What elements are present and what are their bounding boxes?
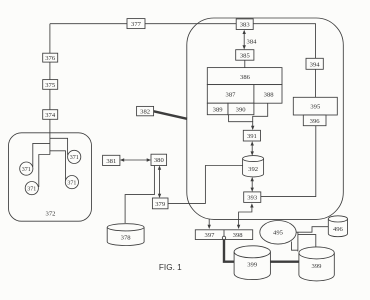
svg-text:376: 376 <box>45 55 56 62</box>
svg-text:374: 374 <box>45 112 56 119</box>
wire 385 to 386 <box>244 60 246 67</box>
svg-text:379: 379 <box>155 201 166 208</box>
svg-text:399: 399 <box>247 262 258 269</box>
wire 388 merge <box>253 103 268 122</box>
arrow 384 between 383 and 385 <box>243 33 245 47</box>
node 371 lower-right <box>65 176 78 189</box>
wire branch to top-right 371 <box>50 138 68 155</box>
wire down to cylinder 399 right <box>297 232 299 251</box>
big rounded system box <box>187 18 343 219</box>
node 371 top-right <box>68 150 81 163</box>
box 390 <box>228 103 254 115</box>
boxes 397 398 <box>195 230 252 240</box>
svg-text:380: 380 <box>154 157 165 164</box>
box 376 <box>43 53 58 62</box>
svg-text:495: 495 <box>273 230 284 237</box>
box 375 <box>43 80 58 90</box>
svg-text:378: 378 <box>121 234 132 241</box>
box 388 <box>254 85 282 104</box>
svg-text:371: 371 <box>67 180 76 186</box>
svg-text:390: 390 <box>236 106 247 113</box>
svg-text:395: 395 <box>310 104 321 111</box>
wire branch to bottom-left 371 <box>39 155 50 188</box>
wire left vertical chain 376-375-374 into 372 <box>49 24 51 155</box>
cylinder 378 <box>107 224 144 246</box>
box 387 <box>207 85 254 104</box>
svg-text:371: 371 <box>70 155 79 161</box>
box 394 <box>306 58 323 69</box>
svg-text:391: 391 <box>247 133 257 140</box>
svg-text:397: 397 <box>205 232 216 239</box>
rounded box 372 <box>9 133 92 221</box>
arrow 392-393 <box>251 180 253 190</box>
svg-text:372: 372 <box>46 211 56 218</box>
box 381 <box>103 155 120 165</box>
svg-text:396: 396 <box>310 118 321 125</box>
cylinder 496 <box>328 216 347 237</box>
svg-text:377: 377 <box>131 21 142 28</box>
thick cable to 399 cylinders <box>224 240 299 262</box>
svg-text:388: 388 <box>264 91 275 98</box>
box 374 <box>43 110 58 120</box>
wire 380 to 378 <box>125 166 154 224</box>
svg-text:392: 392 <box>248 166 258 173</box>
leader line 382 <box>154 111 187 119</box>
svg-text:393: 393 <box>247 195 258 202</box>
box 385 <box>236 50 254 61</box>
svg-text:381: 381 <box>106 158 116 165</box>
wire branch to left 371 <box>33 143 50 166</box>
ellipse 495 <box>260 221 296 245</box>
box 379 <box>152 198 168 209</box>
svg-text:384: 384 <box>247 39 258 46</box>
svg-text:FIG. 1: FIG. 1 <box>159 263 182 272</box>
svg-text:371: 371 <box>22 167 31 173</box>
wire tee to cylinder 399 right top <box>298 235 316 247</box>
box 389 <box>207 103 228 115</box>
cylinder 399 right <box>299 247 334 281</box>
wire 393 to 398 <box>239 206 252 226</box>
svg-text:375: 375 <box>45 82 56 89</box>
arrow into 397 <box>208 219 210 226</box>
box 377 <box>127 19 145 29</box>
wire 393 right to 396 vertical <box>261 126 316 197</box>
node 371 left <box>20 162 33 175</box>
svg-text:385: 385 <box>240 52 251 59</box>
svg-text:496: 496 <box>333 226 344 233</box>
svg-text:398: 398 <box>233 232 244 239</box>
svg-text:394: 394 <box>310 61 321 68</box>
box 395 <box>293 97 337 115</box>
node 371 bottom-left <box>25 182 38 195</box>
box 391 <box>243 130 260 141</box>
arrow 381-380 <box>123 159 149 161</box>
svg-text:389: 389 <box>213 106 224 113</box>
svg-text:399: 399 <box>312 263 323 270</box>
wire 495 bottom leg <box>292 242 298 251</box>
node junction circle <box>222 236 225 239</box>
svg-text:383: 383 <box>240 22 251 29</box>
svg-text:386: 386 <box>240 74 251 81</box>
box 382 <box>137 106 154 115</box>
cylinder 392 <box>243 156 264 177</box>
svg-text:387: 387 <box>226 91 237 98</box>
wire branch to lower-right 371 <box>50 151 66 181</box>
arrow 391-392 <box>251 144 253 153</box>
arrow 380-379 <box>159 168 161 195</box>
box 383 <box>236 19 253 30</box>
svg-text:371: 371 <box>27 186 36 192</box>
box 380 <box>151 154 167 165</box>
wire 377 horizontal to 383 <box>50 23 236 25</box>
wire 394 to 395 <box>315 69 317 97</box>
wire 379 to 392 <box>168 166 243 204</box>
cylinder 399 left <box>234 246 270 280</box>
svg-text:382: 382 <box>140 109 150 116</box>
box 393 <box>244 192 261 203</box>
box 386 <box>207 68 282 85</box>
wire top to 394 <box>253 24 315 59</box>
wire 390 merge down to 391 <box>229 115 253 128</box>
box 396 <box>303 115 326 126</box>
wire 495 to 496 <box>296 227 328 233</box>
